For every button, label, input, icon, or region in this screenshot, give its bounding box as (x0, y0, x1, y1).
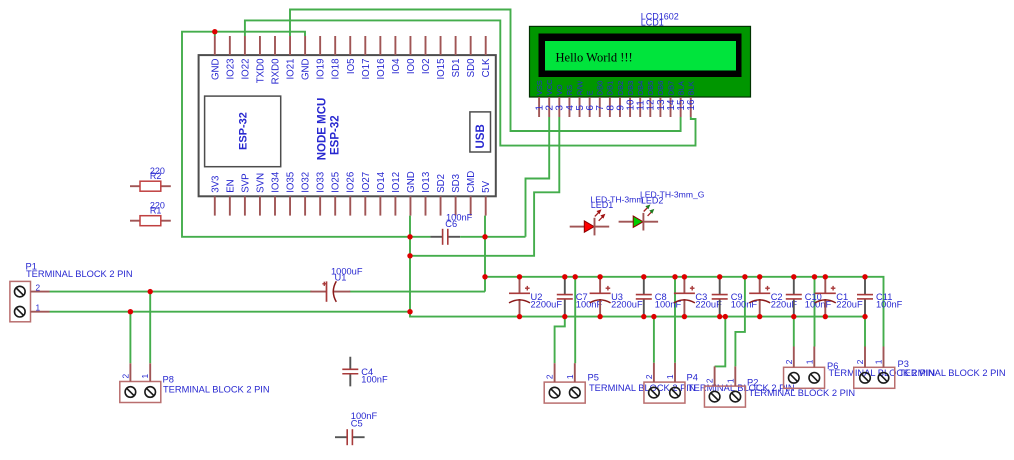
svg-text:BLK: BLK (687, 81, 696, 95)
svg-text:P8: P8 (163, 375, 174, 385)
svg-text:IO22: IO22 (240, 59, 251, 80)
svg-text:5V: 5V (481, 180, 492, 192)
svg-text:2200uF: 2200uF (611, 300, 643, 310)
svg-text:IO0: IO0 (406, 58, 417, 74)
svg-text:TERMINAL BLOCK 2 PIN: TERMINAL BLOCK 2 PIN (26, 269, 133, 279)
svg-text:1: 1 (36, 302, 41, 312)
svg-text:2200uF: 2200uF (531, 300, 563, 310)
svg-text:2: 2 (644, 374, 654, 379)
svg-text:220uF: 220uF (836, 300, 863, 310)
svg-text:DB1: DB1 (606, 81, 615, 96)
svg-text:TERMINAL BLOCK 2 PIN: TERMINAL BLOCK 2 PIN (163, 385, 270, 395)
svg-text:IO14: IO14 (376, 171, 387, 193)
svg-text:IO34: IO34 (271, 171, 282, 193)
svg-text:100nF: 100nF (576, 300, 603, 310)
svg-text:IO23: IO23 (225, 59, 236, 80)
svg-text:IO33: IO33 (316, 172, 327, 193)
svg-text:TXD0: TXD0 (255, 58, 266, 83)
svg-text:DB2: DB2 (616, 81, 625, 96)
svg-text:DB6: DB6 (656, 81, 665, 96)
svg-text:IO35: IO35 (286, 172, 297, 193)
svg-text:SD0: SD0 (466, 58, 477, 77)
svg-text:1: 1 (725, 378, 735, 383)
svg-text:IO18: IO18 (331, 59, 342, 80)
svg-text:GND: GND (301, 59, 312, 81)
svg-text:SVP: SVP (240, 173, 251, 192)
svg-text:R2: R2 (150, 171, 162, 181)
svg-text:Hello World !!!: Hello World !!! (556, 50, 633, 64)
svg-text:1: 1 (665, 374, 675, 379)
svg-text:LED2: LED2 (641, 196, 664, 206)
svg-text:IO32: IO32 (301, 172, 312, 193)
svg-text:16: 16 (686, 99, 697, 111)
svg-text:IO13: IO13 (421, 172, 432, 193)
svg-text:3V3: 3V3 (210, 176, 221, 193)
svg-text:CLK: CLK (481, 58, 492, 77)
svg-text:SD1: SD1 (451, 59, 462, 78)
svg-text:CMD: CMD (466, 171, 477, 193)
svg-text:IO16: IO16 (376, 59, 387, 80)
svg-text:TERMINAL BLOCK 2 PIN: TERMINAL BLOCK 2 PIN (749, 388, 856, 398)
svg-text:IO4: IO4 (391, 58, 402, 74)
svg-text:GND: GND (210, 59, 221, 81)
svg-text:IO26: IO26 (346, 172, 357, 193)
svg-text:LED1: LED1 (591, 200, 614, 210)
svg-text:P5: P5 (588, 373, 599, 383)
svg-text:DB7: DB7 (666, 81, 675, 96)
svg-text:P2: P2 (747, 378, 758, 388)
svg-text:IO17: IO17 (361, 59, 372, 80)
svg-text:1: 1 (565, 374, 575, 379)
svg-text:1: 1 (874, 359, 884, 364)
svg-text:SD3: SD3 (451, 174, 462, 193)
svg-text:220uF: 220uF (695, 300, 722, 310)
svg-text:IO21: IO21 (286, 59, 297, 80)
svg-text:2: 2 (855, 359, 865, 364)
svg-text:IO25: IO25 (331, 172, 342, 193)
svg-text:R1: R1 (150, 206, 162, 216)
svg-text:DB4: DB4 (636, 81, 645, 96)
svg-text:IO15: IO15 (436, 59, 447, 80)
svg-text:VSS: VSS (535, 80, 544, 95)
svg-text:ESP-32: ESP-32 (330, 115, 342, 155)
svg-text:U1: U1 (335, 272, 347, 282)
svg-text:2: 2 (545, 374, 555, 379)
svg-text:EN: EN (225, 179, 236, 192)
svg-text:TERMINAL BLOCK 2 PIN: TERMINAL BLOCK 2 PIN (899, 368, 1006, 378)
svg-text:DB0: DB0 (596, 81, 605, 96)
svg-text:2: 2 (36, 282, 41, 292)
svg-text:RS: RS (565, 85, 574, 95)
svg-text:SD2: SD2 (436, 174, 447, 193)
svg-text:100nF: 100nF (876, 300, 903, 310)
svg-text:C5: C5 (351, 418, 363, 428)
svg-text:R/W: R/W (575, 80, 584, 96)
svg-text:E: E (585, 90, 594, 95)
svg-text:DB3: DB3 (626, 81, 635, 96)
svg-text:P4: P4 (687, 373, 698, 383)
svg-text:VCC: VCC (545, 79, 554, 95)
svg-text:IO19: IO19 (316, 59, 327, 80)
svg-text:DB5: DB5 (646, 81, 655, 96)
svg-text:ESP-32: ESP-32 (238, 112, 250, 150)
svg-text:IO27: IO27 (361, 172, 372, 193)
svg-text:GND: GND (406, 171, 417, 193)
svg-text:USB: USB (475, 124, 487, 148)
svg-text:2: 2 (784, 359, 794, 364)
svg-text:2: 2 (705, 378, 715, 383)
svg-text:IO12: IO12 (391, 172, 402, 193)
svg-text:RXD0: RXD0 (271, 58, 282, 84)
svg-text:100nF: 100nF (361, 374, 388, 384)
svg-text:VO: VO (555, 84, 564, 95)
svg-text:C6: C6 (445, 219, 457, 229)
svg-text:1: 1 (140, 374, 150, 379)
svg-text:LCD1: LCD1 (641, 18, 664, 28)
svg-text:SVN: SVN (255, 173, 266, 193)
svg-text:NODE MCU: NODE MCU (317, 98, 329, 161)
svg-text:BLA: BLA (676, 81, 685, 95)
svg-text:IO5: IO5 (346, 59, 357, 75)
svg-text:IO2: IO2 (421, 59, 432, 75)
svg-text:2: 2 (120, 374, 130, 379)
svg-text:1: 1 (804, 359, 814, 364)
